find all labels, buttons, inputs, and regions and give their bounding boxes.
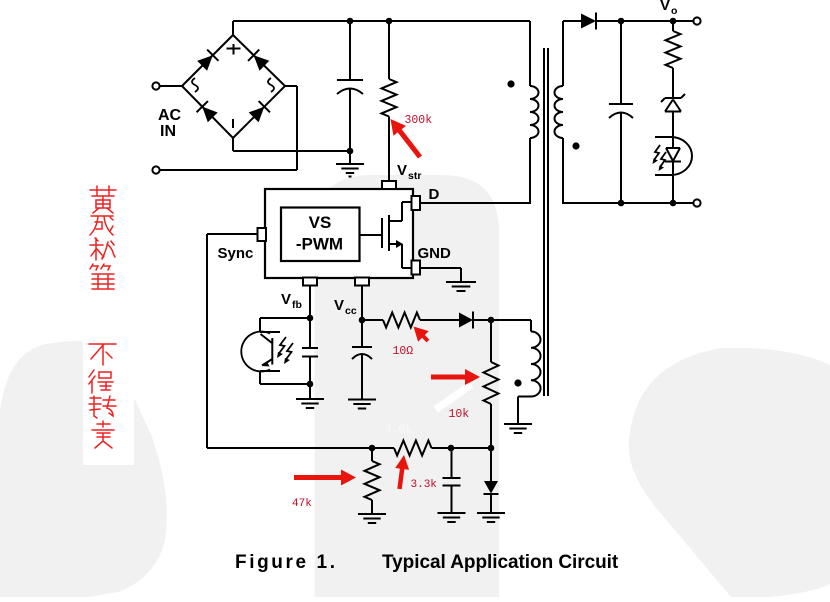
wire D pin to transformer <box>420 202 530 204</box>
bridge diode upper-right <box>248 50 269 71</box>
svg-text:IN: IN <box>160 123 176 140</box>
optocoupler LED light arrows <box>653 145 667 171</box>
ground Vfb <box>296 399 324 408</box>
opto transistor Q2 <box>260 332 280 384</box>
node output rail cap <box>618 200 625 207</box>
ground C1 <box>336 164 364 177</box>
node Vfb bottom <box>307 381 314 388</box>
ground aux winding <box>504 424 532 433</box>
svg-text:V: V <box>660 0 670 14</box>
node output rail led <box>670 200 677 207</box>
pin Vstr <box>382 181 396 189</box>
watermark blob bottom-right <box>629 348 830 597</box>
red char cheng <box>90 216 113 235</box>
terminal Vo- <box>693 199 700 206</box>
svg-text:Figure 1.: Figure 1. <box>235 552 338 573</box>
label Vo <box>660 0 677 17</box>
node top rail / filter cap <box>347 18 354 25</box>
wire secondary top to diode <box>563 20 581 22</box>
svg-text:Typical Application Circuit: Typical Application Circuit <box>382 552 619 573</box>
arrow at 300k <box>391 119 423 159</box>
node bottom rail 47k <box>369 445 376 452</box>
node bottom rail cap <box>448 445 455 452</box>
wire Vfb pin down <box>309 286 311 319</box>
caption Figure 1 <box>235 552 619 573</box>
ground D4 <box>477 513 505 522</box>
wire bottom rail right <box>432 447 492 449</box>
capacitor C3 feedback <box>302 318 318 384</box>
wire output bottom rail <box>563 202 696 204</box>
capacitor C4 Vcc <box>352 320 372 400</box>
arrowhead at 10ohm <box>414 327 430 343</box>
resistor 10ohm <box>383 313 420 328</box>
wire C1 to ground <box>349 151 351 164</box>
label 3.3k value <box>411 479 438 491</box>
T1 core <box>544 48 548 396</box>
svg-text:V: V <box>334 297 344 314</box>
wire Vcc to 10ohm <box>362 319 383 321</box>
wire GND pin to ground <box>420 268 461 282</box>
label Vcc <box>334 297 357 317</box>
wire AC top to bridge <box>160 85 183 87</box>
svg-text:AC: AC <box>158 107 182 124</box>
wire aux node to 10k <box>490 320 492 362</box>
svg-text:o: o <box>671 5 677 17</box>
wire aux node to winding <box>491 319 531 321</box>
bridge rectifier frame <box>182 21 285 138</box>
white band behind red text <box>83 328 134 465</box>
label 300k value <box>405 114 433 127</box>
arrow at 10k <box>431 369 480 385</box>
resistor 47k <box>365 448 380 514</box>
resistor 3k3 horizontal <box>394 441 432 456</box>
wire Vcc pin down <box>361 286 363 321</box>
T1 secondary winding <box>555 21 563 204</box>
watermark capsule center <box>315 175 500 597</box>
mosfet Q1 source with arrow <box>389 240 412 268</box>
red char bu <box>89 344 116 365</box>
terminal AC bottom <box>152 166 159 173</box>
label 47k value <box>292 498 312 510</box>
bridge plus mark <box>227 44 241 55</box>
label 10ohm value <box>393 345 414 358</box>
opto transistor bottom wire <box>260 383 310 385</box>
T1 aux winding <box>518 320 541 424</box>
arrow at 47k <box>294 470 356 486</box>
zener diode Z1 <box>661 94 685 148</box>
wire bridge bottom to cap <box>233 138 350 151</box>
node output cap top <box>618 18 625 25</box>
wire Vfb to ground <box>309 384 311 399</box>
red char de <box>89 370 113 393</box>
resistor 300k <box>382 79 397 117</box>
T1 secondary phase dot <box>572 142 579 149</box>
pin Sync <box>258 228 267 241</box>
opto transistor case arc <box>241 332 270 372</box>
T1 aux phase dot <box>514 379 521 386</box>
terminal AC top <box>152 82 159 89</box>
label Vfb <box>281 291 302 311</box>
red char zhuan <box>89 396 116 418</box>
label Vstr <box>397 162 421 182</box>
label D <box>429 186 440 203</box>
pin Vcc <box>355 278 369 286</box>
IC U1 body <box>265 189 413 278</box>
mosfet Q1 drain <box>389 202 412 221</box>
mosfet Q1 channel <box>388 215 390 251</box>
svg-text:V: V <box>397 162 407 179</box>
bridge diode lower-left <box>197 101 218 122</box>
label AC IN <box>158 107 182 140</box>
pin GND <box>412 261 421 275</box>
label GND <box>418 245 452 262</box>
node Vfb top <box>307 315 314 322</box>
node bottom rail diode <box>488 445 495 452</box>
ground IC GND <box>446 282 476 291</box>
opto transistor top wire <box>260 318 310 332</box>
svg-text:VS: VS <box>309 213 332 232</box>
mosfet Q1 gate <box>360 218 383 248</box>
svg-text:10k: 10k <box>449 408 470 421</box>
svg-text:-PWM: -PWM <box>296 235 343 254</box>
resistor 10k <box>484 362 499 404</box>
IC inner block VS-PWM <box>281 208 360 262</box>
bridge ac tilde left <box>192 78 198 92</box>
svg-text:str: str <box>408 170 421 182</box>
node C1 bottom <box>347 148 354 155</box>
svg-text:3.3k: 3.3k <box>411 479 438 491</box>
faint watermark text 3.0k <box>385 424 413 437</box>
wire 10k to bottom rail <box>490 404 492 448</box>
pin Vfb <box>303 278 317 286</box>
diode D2 output rectifier <box>581 13 596 30</box>
capacitor C2 output <box>609 21 633 203</box>
ground 47k <box>358 514 386 523</box>
node aux top <box>488 317 495 324</box>
optocoupler LED <box>665 148 681 203</box>
wire top rail <box>233 20 530 22</box>
red char mi <box>90 238 115 260</box>
wire diode to aux node <box>473 319 491 321</box>
diode D4 <box>484 448 499 513</box>
T1 primary winding <box>530 21 539 204</box>
arrow at 3.3k resistor <box>395 455 409 489</box>
node top rail / 300k <box>386 18 393 25</box>
white swoosh near 10k arrow <box>434 382 474 413</box>
red char ji <box>90 264 114 289</box>
label Sync <box>218 245 254 262</box>
red char mai <box>92 421 114 448</box>
wire Sync to bottom rail <box>207 234 258 448</box>
wire diode to Vo <box>596 20 696 22</box>
svg-text:3.0k: 3.0k <box>385 424 413 437</box>
watermark blob bottom-left <box>0 341 167 597</box>
wire 300k to Vstr pin <box>388 117 390 183</box>
capacitor C1 bulk <box>337 21 363 151</box>
svg-text:GND: GND <box>418 245 452 262</box>
opto transistor light arrows <box>277 337 293 364</box>
svg-text:V: V <box>281 291 291 308</box>
bridge diode lower-right <box>249 101 270 122</box>
svg-text:D: D <box>429 186 440 203</box>
svg-text:10Ω: 10Ω <box>393 345 414 358</box>
svg-text:Sync: Sync <box>218 245 254 262</box>
resistor R2 output <box>666 21 681 99</box>
bridge diode upper-left <box>197 50 218 71</box>
optocoupler LED case <box>655 137 692 175</box>
ground C5 <box>438 513 466 522</box>
pin D <box>412 196 421 210</box>
svg-text:300k: 300k <box>405 114 433 127</box>
node Vcc <box>359 317 366 324</box>
bridge ac tilde right <box>268 78 274 92</box>
wire 10ohm to diode <box>420 319 459 321</box>
capacitor C5 <box>443 448 461 513</box>
svg-text:fb: fb <box>292 299 302 311</box>
wire AC bottom <box>160 86 298 170</box>
bridge minus mark <box>232 119 234 128</box>
diode D3 aux <box>459 312 473 329</box>
T1 primary phase dot <box>507 80 514 87</box>
terminal Vo+ <box>693 17 700 24</box>
svg-text:cc: cc <box>345 305 357 317</box>
wire top rail to 300k <box>388 21 390 79</box>
svg-text:47k: 47k <box>292 498 312 510</box>
label 10k value <box>449 408 470 421</box>
node Vo resistor top <box>670 18 677 25</box>
red char huang <box>90 186 116 213</box>
ground Vcc cap <box>348 400 376 409</box>
wire bottom rail left <box>207 447 394 449</box>
